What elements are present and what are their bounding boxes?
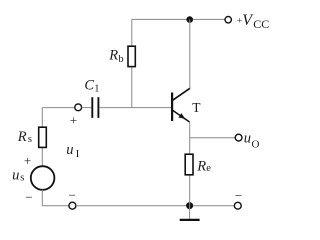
- svg-text:−: −: [235, 188, 242, 203]
- wire C1 to base: [99, 107, 171, 109]
- node emitter-ground junction: [186, 202, 193, 209]
- transistor Q T: [172, 88, 190, 122]
- base bar: [171, 93, 173, 122]
- label u1: [66, 142, 80, 160]
- label C1: [84, 77, 99, 94]
- svg-text:R: R: [196, 159, 206, 175]
- svg-text:T: T: [192, 100, 201, 115]
- label Rs: [17, 129, 32, 145]
- svg-text:e: e: [206, 163, 211, 174]
- source us: [31, 166, 55, 190]
- svg-text:+: +: [70, 112, 77, 127]
- label us: [12, 167, 24, 183]
- svg-text:C: C: [84, 77, 94, 93]
- ground: [180, 206, 200, 220]
- terminal output bottom: [234, 202, 241, 209]
- label Re: [196, 159, 211, 175]
- wire source branch upper: [41, 108, 43, 167]
- wire output: [190, 137, 236, 139]
- wire top rail: [132, 18, 225, 20]
- terminal input top: [75, 104, 82, 111]
- wire collector: [189, 19, 191, 88]
- wire input to capacitor: [42, 107, 75, 109]
- svg-text:CC: CC: [253, 17, 269, 31]
- svg-text:R: R: [17, 129, 27, 145]
- svg-text:−: −: [69, 187, 76, 202]
- svg-text:s: s: [20, 173, 24, 184]
- label +VCC: [237, 12, 269, 31]
- svg-text:+: +: [24, 153, 31, 168]
- svg-text:u: u: [12, 167, 19, 183]
- resistor Rb: [128, 46, 135, 66]
- wire bottom rail mid: [76, 205, 235, 207]
- svg-text:b: b: [118, 54, 123, 65]
- emitter lead diagonal: [173, 110, 190, 122]
- svg-text:I: I: [76, 149, 80, 160]
- svg-text:O: O: [252, 139, 260, 151]
- label uO: [244, 131, 260, 151]
- svg-text:s: s: [28, 134, 32, 145]
- svg-text:1: 1: [94, 84, 99, 95]
- resistor Re: [185, 154, 193, 175]
- wire source branch lower: [41, 190, 43, 206]
- emitter arrow: [178, 113, 185, 119]
- wire terminal to C1: [82, 107, 92, 109]
- svg-text:u: u: [66, 142, 73, 158]
- terminal uO: [235, 134, 242, 141]
- svg-text:u: u: [244, 131, 251, 147]
- collector lead diagonal: [173, 88, 190, 100]
- wire emitter: [189, 122, 191, 206]
- capacitor C1: [92, 97, 98, 118]
- svg-text:R: R: [108, 48, 118, 64]
- resistor Rs: [39, 127, 47, 147]
- wire Rb branch: [131, 19, 133, 107]
- terminal +VCC: [225, 17, 231, 23]
- label Rb: [108, 48, 123, 65]
- svg-text:−: −: [25, 189, 32, 204]
- terminal input bottom: [69, 202, 76, 209]
- wire bottom rail left: [42, 205, 69, 207]
- node collector-supply junction: [186, 16, 193, 23]
